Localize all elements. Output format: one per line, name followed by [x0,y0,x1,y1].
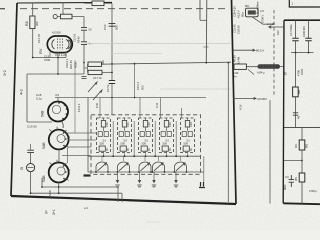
tube RV cathode arc [52,40,55,49]
column 5 lower box [183,146,189,151]
svg-text:C19 50: C19 50 [27,125,37,129]
svg-text:40,5V: 40,5V [233,55,237,62]
svg-text:RV: RV [38,48,43,54]
wire bus down x295.5 [295,53,297,87]
wire Gl down to bus [30,172,32,194]
tube RV (stadium envelope) [47,36,72,53]
svg-text:80,5 V: 80,5 V [256,49,264,53]
dashed separator vertical x274 [273,10,275,97]
tube RV grid strokes (dashed) [58,39,63,51]
column 5 coil resistor [185,121,189,128]
tube T4 pin dots [63,165,67,179]
ground bus y172 [88,171,204,173]
IF link bottom bar [200,19,207,21]
svg-text:3+1: 3+1 [52,209,56,215]
svg-text:R9 45: R9 45 [77,36,81,43]
wire R9 diagonal [252,17,274,24]
svg-text:R6: R6 [294,144,298,148]
IF link vertical x206.5 [205,0,208,63]
vertical bus x112 [111,3,113,115]
svg-text:C9 0,1: C9 0,1 [77,103,81,112]
capacitor small (x84 y77) [82,76,87,78]
svg-text:100V: 100V [300,69,304,75]
wire cap stub up [30,144,32,150]
grid feeder vertical x88 [87,98,89,173]
svg-text:Bandfilter: Bandfilter [256,1,260,14]
damper pigtail [248,67,284,75]
IF can column 1 dashed box [97,118,111,153]
capacitor C13 (left bus lower) [81,42,87,45]
wire below R7 [295,97,297,128]
right connector mark [199,182,205,188]
wire x302 down from bus [301,127,303,140]
column 1 coil resistor [101,121,105,128]
svg-text:C9 0,1: C9 0,1 [136,81,140,90]
wire x204 [203,156,205,182]
svg-text:C34: C34 [189,122,193,127]
vertical bus x84 [83,17,85,75]
antenna terminal circle [53,15,57,19]
panel mid bus y127.4 [284,126,320,128]
tube T2 heater inner circle [52,105,60,113]
main schematic frame border [11,0,236,204]
svg-text:C10: C10 [103,24,107,30]
right panel bottom border [283,202,320,205]
svg-text:4,5: 4,5 [260,9,264,13]
svg-text:C41: C41 [155,102,159,108]
svg-text:B7: B7 [284,71,288,75]
svg-text:4500: 4500 [74,62,78,68]
svg-text:300: 300 [101,60,105,65]
resistor R7 (upper, vertical) [293,87,299,97]
right panel left border [282,20,285,203]
bus drop x118 [117,187,119,202]
svg-text:R5: R5 [294,177,298,181]
resistor (top, on frame top line) [92,1,104,6]
svg-text:43,5 V: 43,5 V [237,10,241,18]
tube EBF (T2) envelope [48,102,68,122]
svg-text:C24: C24 [234,71,239,75]
upper-right frame corner (cut) [289,0,320,7]
svg-text:500: 500 [142,142,147,146]
column 2 lower box [120,146,126,151]
svg-text:5AB: 5AB [42,175,46,182]
capacitor C17 [292,38,298,41]
resistor R6 (vertical) [299,140,305,150]
svg-text:500: 500 [184,142,189,146]
svg-text:C30: C30 [105,122,109,127]
svg-text:A 4,3V: A 4,3V [267,22,275,26]
wires tubes to IF grid [62,133,96,156]
tube EL (T4) envelope [49,163,69,183]
EHT cap C16 wire [308,20,310,38]
trimmer cap 4 [153,162,165,172]
bus dots [295,52,310,54]
svg-text:R9: R9 [245,4,249,8]
svg-text:C33: C33 [168,122,172,127]
tube RV pin leads [50,51,66,57]
faint scan line y43 [85,43,230,45]
column 2 winding pair [119,132,123,137]
wire cap to Gl [30,153,32,164]
tube T2 pin dots [58,102,67,119]
solid separator vertical x270 [269,100,271,204]
svg-text:1000 4kV: 1000 4kV [302,26,306,37]
adjust symbol at x=176 [175,172,177,180]
svg-text:5AB: 5AB [41,110,45,117]
svg-text:C31: C31 [126,122,130,127]
vertical x27 down-left column [27,74,52,122]
svg-text:5AB: 5AB [48,190,52,196]
svg-text:R10 45: R10 45 [69,60,73,69]
tube T3 pin ticks [50,127,71,148]
vertical x134 [134,64,136,98]
wire T3/T4 couple x67 [67,148,69,164]
column 1 winding pair [98,132,102,137]
long vertical x228 [227,63,229,202]
trimmer cap 2 [118,162,130,172]
column 3 lower box [141,146,147,151]
capacitor C12 (left bus upper) [81,28,87,31]
adjust symbol at x=154 [153,172,155,180]
svg-text:C14 4-20: C14 4-20 [55,53,67,57]
adjust symbol at x=139.5 [139,172,141,180]
IF can column 3 dashed box [139,118,153,153]
wire R12 to damper [246,66,258,68]
svg-text:C17 10: C17 10 [93,76,102,80]
wire below R5 [301,182,303,204]
svg-text:C4: C4 [285,175,289,179]
wire T4 to bus [58,183,60,194]
column 2 coil resistor [122,121,126,128]
column 3 winding pair [140,132,144,137]
wire y97 AVC line [55,97,206,99]
wires R11 [84,64,112,72]
column 1 lower box [99,146,105,151]
svg-text:5AB: 5AB [42,142,46,149]
C17 lower wire [295,41,297,53]
faint scan line y53 [110,53,162,55]
dashed line stub at left page edge [0,8,5,10]
damper unit (dark cigar) [258,64,281,69]
svg-text:43V: 43V [276,30,280,35]
tube RV anode arc [66,40,71,50]
bus drop x122 [121,193,123,202]
capacitor C6 on x112 [109,81,115,84]
svg-text:4,5/30V: 4,5/30V [257,97,267,101]
trimmer cap 5 [175,162,187,172]
smudge bottom center [146,221,160,223]
svg-text:500: 500 [163,142,168,146]
wire below R6 [301,150,303,173]
svg-text:4,5 500: 4,5 500 [52,31,61,35]
column 5 winding pair [182,132,186,137]
trimmer arrow 1 [88,82,97,92]
resistor R9 enclosure box [246,8,259,17]
column 4 winding pair [161,132,165,137]
svg-text:4700: 4700 [297,70,301,76]
wire EHT A line [269,26,284,28]
faint scan line y89 [160,88,231,90]
svg-text:C26 4,5V: C26 4,5V [233,6,237,17]
resistor R10 [88,62,102,66]
tube T2 bottom lead [61,121,63,129]
wire tube RV cathode down [57,58,59,75]
svg-text:80 p: 80 p [241,11,245,17]
tube T4 pin ticks [50,160,71,181]
svg-text:500: 500 [141,85,145,90]
EHT cap C17 wire [295,20,297,38]
Gl filament bar [28,167,34,169]
tube T4 inner circle [57,167,65,175]
heater bus y187 [42,186,118,188]
heater bus y193 [31,192,122,194]
svg-text:4700: 4700 [44,58,51,62]
wire vertical from top border to R8 [32,3,34,16]
anode bus y64 sloped [102,62,232,64]
svg-text:C30: C30 [95,102,99,108]
adjust symbol at x=117.5 [117,172,119,180]
tube T3 inner circle [57,135,65,143]
junction dots y62 [111,62,229,98]
IF grid bus dots [103,155,189,157]
antenna series resistor box [61,14,73,19]
svg-text:0,1μ: 0,1μ [36,96,42,100]
svg-text:C32: C32 [147,122,151,127]
resistor R9 body [248,10,256,14]
wire T2 top to AVC [57,98,59,102]
IF grid gap wires [113,121,176,156]
svg-text:C13 45: C13 45 [37,34,41,43]
capacitor C10 on x112 [109,24,116,27]
trimmer cap 3 [139,162,151,172]
column 4 coil resistor [164,121,168,128]
svg-text:500: 500 [121,142,126,146]
wire bus to x302 y160 [284,160,302,162]
grid-leak bus y74 [27,73,84,75]
svg-text:C16 0,1: C16 0,1 [65,58,69,68]
svg-text:C6 5p: C6 5p [106,84,110,92]
svg-text:Gl: Gl [20,167,24,170]
cap marks x295 y113 [293,113,298,115]
wire 4,5/30V stub [233,97,256,99]
tube EF (T3) envelope [49,130,69,150]
IF filter outer dashed box [91,115,201,175]
svg-text:6800: 6800 [284,184,287,190]
capacitor C16 [305,38,311,41]
tube T3 bottom lead [58,149,60,162]
svg-text:a 4: a 4 [84,206,88,210]
svg-text:4,3V: 4,3V [239,104,243,110]
dashed AVC bus line (top) [20,8,227,10]
pilot lamp Gl [27,164,35,172]
svg-text:C20 80: C20 80 [237,25,241,34]
tube T3 pin dots [63,132,67,146]
svg-text:A 84 μ: A 84 μ [257,71,265,75]
IF can column 5 dashed box [181,118,195,153]
wire top resistor to x112 [84,2,112,4]
right panel top border [284,19,320,21]
svg-text:C12 50: C12 50 [73,33,77,42]
svg-text:C17 500p: C17 500p [289,24,293,36]
pin bus under tube RV [33,57,66,59]
resistor R11 [88,70,102,74]
svg-text:5700 V: 5700 V [261,14,265,23]
svg-text:4700 μ: 4700 μ [309,189,317,193]
C16 lower wire [308,41,310,53]
svg-text:46: 46 [297,116,301,119]
wire 80,5V stub [233,49,255,51]
EHT bus y52.6 [291,52,314,54]
trimmer cap 1 [96,162,108,172]
svg-text:500: 500 [115,25,119,30]
dark junction mark x86 y175 [84,174,91,176]
svg-text:4+2: 4+2 [20,89,24,95]
wire R8 bottom to y57 bus [32,29,34,58]
column 4 lower box [162,146,168,151]
capacitor C4 [289,175,294,187]
antenna drop wire [62,3,64,15]
IF grid junction bus y156 [88,155,200,157]
svg-text:3=: 3= [45,210,49,214]
svg-text:4,5: 4,5 [55,93,59,97]
damper hatch [260,64,275,69]
resistor R5 (vertical) [299,173,305,182]
trimmer arrow 2 [93,90,102,100]
bus junction dots [30,186,60,194]
wire T4 left pin down [41,178,43,187]
capacitor above Gl [27,150,34,152]
IF link vertical x199.5 [199,0,201,20]
svg-text:3+2: 3+2 [3,70,7,76]
svg-text:4n: 4n [234,74,237,78]
junction dot [301,160,303,162]
junction dots left [32,57,85,75]
svg-text:C23 45: C23 45 [233,24,237,33]
wires into grid tops [100,98,182,119]
column 3 coil resistor [143,121,147,128]
svg-text:R8: R8 [25,21,29,26]
IF can column 4 dashed box [160,118,174,153]
resistor R8 [30,16,35,29]
svg-text:500: 500 [100,142,105,146]
svg-text:861: 861 [305,143,309,148]
resistor R12 (between frames) [234,64,246,69]
tick x205 y47 [204,46,209,48]
IF can column 2 dashed box [118,118,132,153]
wire antenna box to bus [57,16,84,18]
svg-text:300: 300 [35,21,39,26]
vertical wire x75 [74,60,76,133]
